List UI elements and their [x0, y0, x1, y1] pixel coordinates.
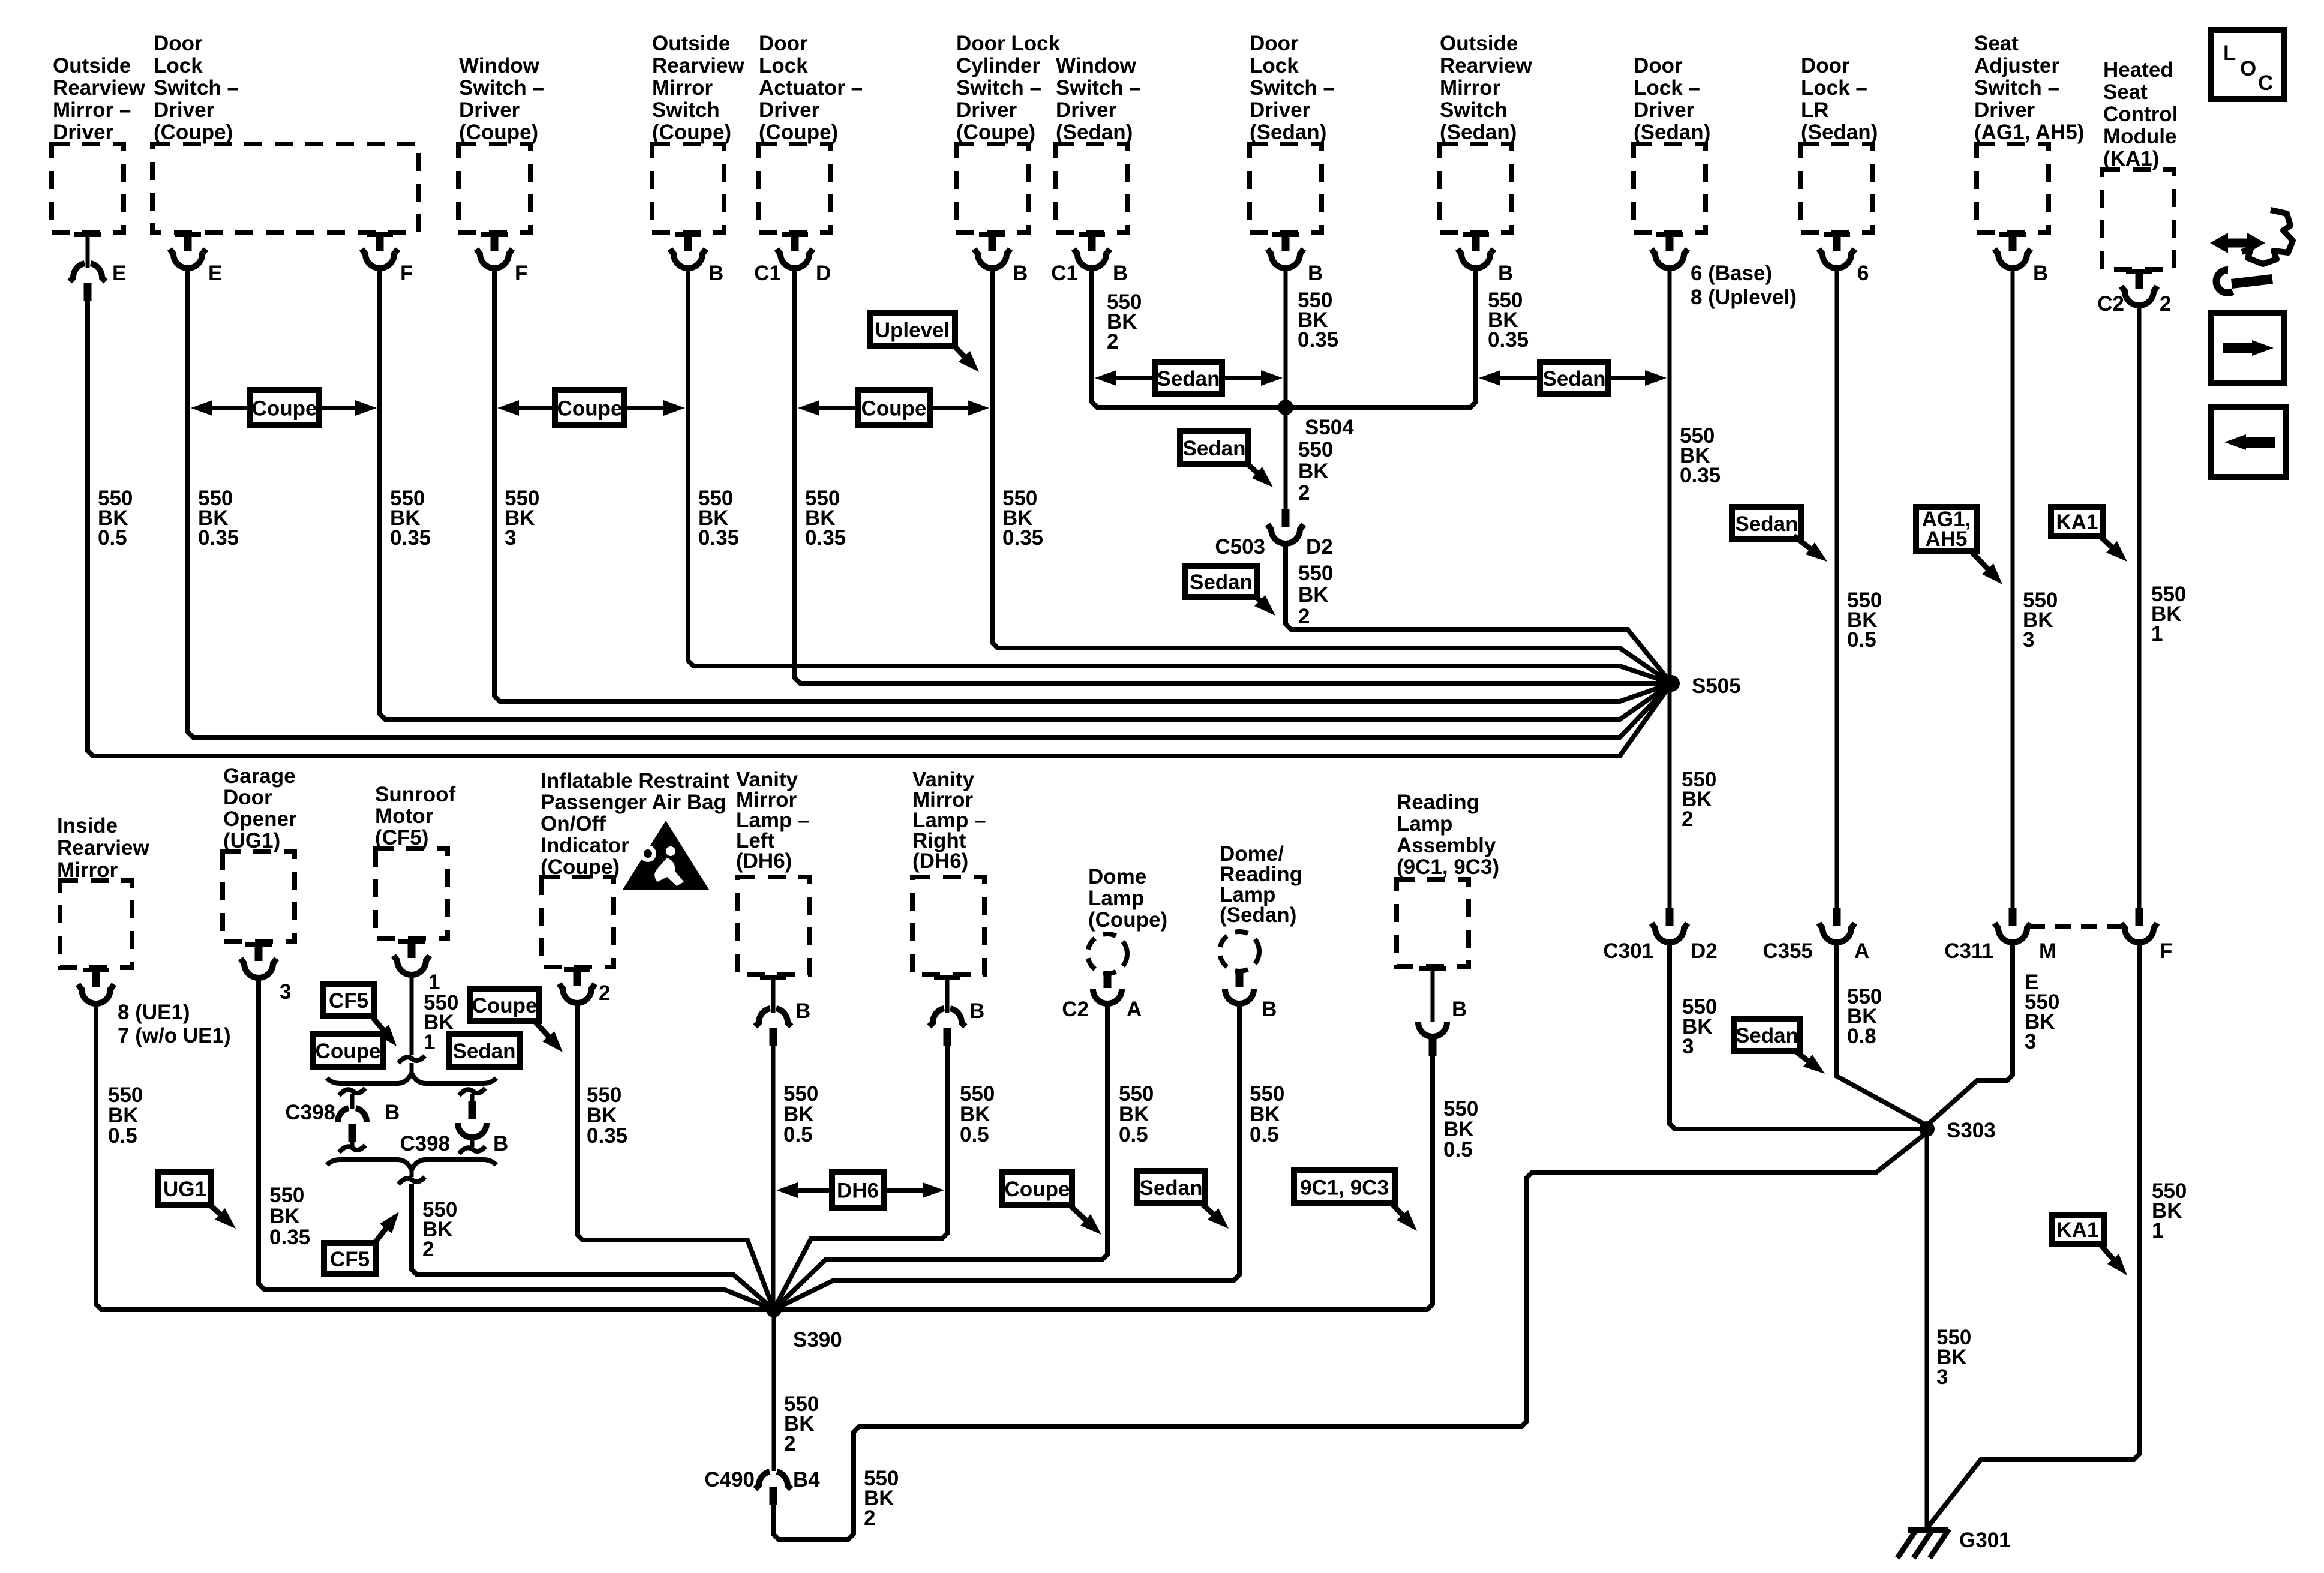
svg-text:(UG1): (UG1) [223, 829, 280, 852]
svg-text:(9C1, 9C3): (9C1, 9C3) [1397, 855, 1499, 879]
wire S303 down to ground G301 [1925, 1129, 1929, 1530]
svg-text:Door: Door [1634, 54, 1683, 77]
wire break squiggle bottom [410, 1170, 414, 1177]
svg-text:A: A [1127, 998, 1142, 1021]
svg-text:Coupe: Coupe [252, 397, 317, 421]
svg-text:F: F [515, 262, 527, 285]
svg-text:C2: C2 [2097, 292, 2124, 316]
svg-text:1: 1 [424, 1031, 435, 1054]
svg-text:F: F [400, 262, 413, 285]
svg-text:C: C [2258, 71, 2273, 95]
svg-text:Seat: Seat [1974, 32, 2019, 55]
svg-text:Outside: Outside [652, 32, 730, 55]
svg-text:3: 3 [2023, 628, 2034, 652]
svg-text:Sedan: Sedan [1139, 1176, 1202, 1200]
callout Sedan with arrows [1497, 376, 1540, 380]
svg-text:BK: BK [1298, 583, 1329, 607]
svg-text:0.35: 0.35 [269, 1226, 310, 1249]
svg-text:0.35: 0.35 [390, 526, 431, 550]
svg-text:B: B [1262, 998, 1277, 1021]
svg-text:Assembly: Assembly [1397, 834, 1496, 857]
svg-text:550: 550 [269, 1184, 304, 1207]
svg-text:B: B [1498, 262, 1513, 285]
svg-text:3: 3 [2025, 1030, 2036, 1053]
callout Sedan with arrow upper [1732, 507, 1801, 539]
svg-text:0.5: 0.5 [1250, 1123, 1279, 1146]
svg-text:Door: Door [1801, 54, 1850, 77]
connector F on C311 [2136, 908, 2143, 926]
svg-text:DH6: DH6 [837, 1179, 879, 1203]
svg-text:C2: C2 [1062, 998, 1089, 1021]
svg-text:Heated: Heated [2103, 58, 2173, 82]
svg-text:CF5: CF5 [329, 989, 368, 1013]
connector pin F [491, 232, 499, 251]
component Window Switch - Driver (Coupe) box [458, 144, 530, 232]
callout Uplevel with arrow [870, 313, 955, 346]
svg-text:Indicator: Indicator [541, 834, 629, 857]
svg-text:S505: S505 [1692, 674, 1741, 698]
wire Door Lock Switch pin E to S505 [188, 266, 1671, 737]
svg-text:(Coupe): (Coupe) [652, 121, 731, 144]
svg-text:Sunroof: Sunroof [375, 783, 455, 806]
svg-text:Lock –: Lock – [1801, 76, 1867, 100]
svg-text:Door: Door [223, 786, 272, 809]
connector C301 pin D2 [1666, 908, 1674, 926]
svg-text:A: A [1854, 939, 1869, 963]
svg-text:B: B [1113, 262, 1128, 285]
svg-text:(Coupe): (Coupe) [154, 121, 233, 144]
svg-text:0.35: 0.35 [1680, 464, 1721, 487]
connector pin B [1236, 971, 1244, 987]
svg-text:(Sedan): (Sedan) [1801, 121, 1878, 144]
svg-text:Sedan: Sedan [1735, 512, 1798, 536]
svg-text:C503: C503 [1215, 535, 1265, 559]
svg-text:Inflatable Restraint: Inflatable Restraint [541, 769, 729, 792]
svg-text:(Coupe): (Coupe) [759, 121, 838, 144]
connector pin B [1472, 232, 1480, 251]
svg-text:Rearview: Rearview [1440, 54, 1532, 77]
svg-text:B: B [708, 262, 723, 285]
splice S390 [766, 1302, 782, 1317]
svg-text:Mirror –: Mirror – [53, 98, 131, 122]
svg-text:KA1: KA1 [2056, 1218, 2098, 1242]
svg-text:D2: D2 [1306, 535, 1333, 559]
svg-text:S504: S504 [1305, 416, 1354, 439]
svg-text:3: 3 [280, 980, 291, 1004]
svg-text:Switch –: Switch – [1056, 76, 1141, 100]
svg-text:3: 3 [505, 526, 516, 550]
svg-text:(Sedan): (Sedan) [1634, 121, 1710, 144]
component Door Lock - LR (Sedan) box [1801, 144, 1873, 232]
svg-text:Coupe: Coupe [861, 397, 927, 421]
svg-text:Coupe: Coupe [472, 994, 538, 1017]
connector C398 right (Sedan) with squiggles [459, 1088, 485, 1095]
component Heated Seat Control Module box [2102, 169, 2174, 269]
svg-text:Opener: Opener [223, 807, 297, 831]
harness-repair icon (double arrow, outline, wrench) [2227, 239, 2248, 248]
svg-text:0.5: 0.5 [98, 526, 127, 550]
svg-text:Driver: Driver [53, 121, 114, 144]
connector C490 pin B4 [755, 1472, 770, 1489]
ground G301 symbol [1908, 1527, 1948, 1533]
connector pin B [684, 232, 692, 251]
wire Dome/Reading Lamp Sedan to S390 [774, 1001, 1239, 1310]
component Door Lock Switch - Driver (Sedan) box [1250, 144, 1322, 232]
connector pin 8/7 [92, 968, 100, 987]
svg-text:2: 2 [784, 1432, 795, 1455]
wire Outside Rearview Mirror Switch Coupe to S505 [688, 266, 1671, 683]
svg-text:Coupe: Coupe [1005, 1178, 1070, 1201]
wire C503 to S505 top level [1286, 541, 1671, 683]
svg-text:BK: BK [269, 1205, 300, 1228]
svg-text:Sedan: Sedan [1736, 1024, 1798, 1047]
svg-text:C398: C398 [285, 1101, 335, 1124]
splice S505 [1663, 675, 1680, 692]
svg-text:M: M [2039, 939, 2056, 963]
wire Door Lock Driver Sedan through S505 down to C301 [1668, 266, 1672, 908]
component Reading Lamp Assembly box [1397, 879, 1469, 966]
svg-text:O: O [2240, 57, 2256, 80]
svg-text:2: 2 [2160, 292, 2171, 316]
svg-text:Coupe: Coupe [316, 1040, 381, 1063]
callout KA1 with arrow lower [2052, 1215, 2104, 1244]
callout Coupe with arrow [470, 989, 539, 1021]
svg-text:Driver: Driver [759, 98, 820, 122]
callout CF5 with arrow lower [324, 1243, 376, 1274]
component Door Lock Actuator - Driver (Coupe) box [759, 144, 831, 232]
wire Outside Rearview Mirror Switch Sedan to S504 [1293, 266, 1476, 407]
connector pin 1 [408, 939, 416, 958]
svg-text:3: 3 [1936, 1365, 1948, 1389]
wire Door Lock Switch Sedan to S504 [1284, 266, 1288, 407]
svg-text:CF5: CF5 [330, 1248, 370, 1271]
svg-text:2: 2 [864, 1506, 875, 1530]
svg-text:Outside: Outside [1440, 32, 1518, 55]
svg-text:Sedan: Sedan [1157, 367, 1220, 391]
wire Sunroof Motor lower segment to S390 [412, 1184, 774, 1310]
svg-text:Driver: Driver [1974, 98, 2035, 122]
svg-text:2: 2 [1298, 481, 1310, 505]
svg-text:AH5: AH5 [1925, 527, 1967, 551]
svg-text:0.5: 0.5 [783, 1123, 813, 1146]
callout KA1 with arrow upper [2051, 507, 2103, 536]
svg-text:B: B [2033, 262, 2048, 285]
svg-text:2: 2 [1298, 605, 1310, 628]
svg-text:Mirror: Mirror [1440, 76, 1501, 100]
svg-text:0.35: 0.35 [1488, 328, 1529, 352]
svg-text:Passenger Air Bag: Passenger Air Bag [541, 791, 726, 814]
callout Coupe with arrows between wires E and F [209, 406, 250, 410]
wire Door Lock Cylinder Switch to S505 [992, 266, 1671, 683]
wire Sunroof Motor upper segment [410, 972, 414, 1055]
svg-text:S303: S303 [1947, 1119, 1996, 1142]
component Dome/Reading Lamp (Sedan) dashed circle [1220, 932, 1259, 971]
svg-text:(DH6): (DH6) [912, 849, 968, 873]
callout Sedan with arrow to S504-C503 wire [1180, 431, 1248, 464]
svg-text:0.8: 0.8 [1847, 1025, 1876, 1048]
svg-text:Lock: Lock [1250, 54, 1299, 77]
callout 9C1 9C3 with arrow [1294, 1170, 1395, 1203]
svg-text:LR: LR [1801, 98, 1829, 122]
svg-text:2: 2 [599, 981, 610, 1005]
left arrow box icon [2211, 407, 2286, 477]
svg-text:Driver: Driver [459, 98, 520, 122]
connector pin 6/8 [1666, 232, 1674, 251]
svg-text:Switch: Switch [1440, 98, 1508, 122]
svg-text:8 (UE1): 8 (UE1) [118, 1001, 190, 1024]
component Dome Lamp (Coupe) dashed circle [1088, 934, 1127, 974]
component Seat Adjuster Switch box [1977, 144, 2049, 232]
svg-text:C1: C1 [1051, 262, 1078, 285]
svg-text:UG1: UG1 [163, 1178, 206, 1201]
svg-text:BK: BK [1298, 460, 1329, 483]
svg-text:C301: C301 [1603, 939, 1653, 963]
svg-text:C1: C1 [754, 262, 781, 285]
wire Window Switch Sedan to S504 [1092, 266, 1278, 407]
connector C311 pin M [2009, 908, 2017, 926]
svg-text:1: 1 [2151, 622, 2163, 646]
svg-text:Garage: Garage [223, 764, 296, 788]
upper brace [327, 1073, 496, 1083]
LOC reference box icon [2211, 30, 2284, 99]
connector pin 2 [574, 967, 581, 986]
svg-text:0.35: 0.35 [805, 526, 846, 550]
callout Sedan (C398 split) [449, 1034, 520, 1067]
svg-text:8 (Uplevel): 8 (Uplevel) [1691, 286, 1797, 309]
svg-text:B: B [969, 999, 984, 1023]
callout Coupe (C398 split) [313, 1034, 383, 1067]
component Inside Rearview Mirror box [60, 881, 132, 968]
wire Reading Lamp Assembly to S390 [774, 1056, 1433, 1310]
svg-text:(AG1, AH5): (AG1, AH5) [1974, 121, 2084, 144]
svg-text:0.5: 0.5 [1443, 1138, 1473, 1161]
svg-text:On/Off: On/Off [541, 812, 606, 836]
svg-text:B: B [385, 1101, 400, 1124]
component Window Switch - Driver (Sedan) box [1056, 144, 1128, 232]
component Outside Rearview Mirror Switch (Coupe) box [652, 144, 724, 232]
svg-text:Driver: Driver [1634, 98, 1695, 122]
airbag warning triangle icon [623, 821, 709, 890]
callout Sedan with arrow near C355 [1734, 1019, 1800, 1051]
svg-text:Driver: Driver [1056, 98, 1117, 122]
svg-text:0.35: 0.35 [1298, 328, 1338, 352]
wire C301 to S303 [1670, 940, 1927, 1129]
callout UG1 with arrow [158, 1172, 211, 1205]
svg-text:Uplevel: Uplevel [875, 319, 950, 342]
svg-text:550: 550 [1298, 438, 1333, 461]
svg-text:(Coupe): (Coupe) [1088, 908, 1167, 932]
component Door Lock Cylinder Switch box [956, 144, 1028, 232]
connector pin B [771, 977, 776, 1013]
svg-text:Window: Window [1056, 54, 1137, 77]
svg-text:Cylinder: Cylinder [956, 54, 1040, 77]
svg-text:Mirror: Mirror [652, 76, 713, 100]
svg-text:Switch –: Switch – [459, 76, 544, 100]
wire Seat Adjuster Switch down to C311 [2011, 266, 2015, 908]
svg-text:(Sedan): (Sedan) [1250, 121, 1326, 144]
svg-text:2: 2 [1107, 330, 1118, 353]
svg-text:Rearview: Rearview [53, 76, 145, 100]
svg-text:C398: C398 [400, 1132, 450, 1155]
lower brace [327, 1160, 496, 1170]
svg-text:C311: C311 [1944, 939, 1993, 963]
svg-text:Actuator –: Actuator – [759, 76, 863, 100]
wire C355 to S303 [1837, 940, 1927, 1125]
connector C398 left (Coupe) with squiggles [339, 1088, 365, 1095]
svg-text:Sedan: Sedan [452, 1040, 515, 1063]
connector C1 pin B [1088, 232, 1096, 251]
svg-text:Control: Control [2103, 103, 2178, 126]
right arrow box icon [2211, 313, 2284, 383]
svg-text:B: B [1308, 262, 1323, 285]
callout Sedan with arrow below C503 [1185, 566, 1257, 597]
callout Coupe with arrows [515, 406, 555, 410]
component Door Lock - Driver (Sedan) box [1634, 144, 1706, 232]
component Outside Rearview Mirror - Driver box [52, 144, 124, 232]
wire pin F down to ground junction [1926, 940, 2139, 1529]
connector pin F [376, 232, 384, 251]
wire Heated Seat Control Module down to C311 pin F [2137, 303, 2142, 908]
svg-text:(Sedan): (Sedan) [1440, 121, 1517, 144]
connector pin 6 [1833, 232, 1841, 251]
wire Window Switch Coupe to S505 [494, 266, 1671, 701]
svg-text:0.5: 0.5 [108, 1124, 137, 1148]
callout Coupe with arrow [1002, 1172, 1072, 1205]
svg-text:Switch –: Switch – [1974, 76, 2059, 100]
wire Door Lock Switch pin F to S505 [380, 266, 1671, 719]
svg-text:Driver: Driver [154, 98, 215, 122]
svg-text:(Coupe): (Coupe) [956, 121, 1035, 144]
svg-text:Switch: Switch [652, 98, 720, 122]
svg-text:Rearview: Rearview [652, 54, 744, 77]
callout DH6 with arrows [794, 1188, 832, 1193]
callout AG1 AH5 with arrow [1916, 507, 1977, 551]
svg-text:Door: Door [154, 32, 203, 55]
svg-text:E: E [112, 262, 126, 285]
svg-text:Inside: Inside [57, 814, 118, 837]
svg-text:(Sedan): (Sedan) [1220, 903, 1296, 927]
svg-text:1: 1 [2152, 1219, 2163, 1242]
svg-text:B4: B4 [793, 1468, 820, 1491]
svg-text:0.35: 0.35 [698, 526, 739, 550]
svg-text:(Sedan): (Sedan) [1056, 121, 1133, 144]
svg-text:Lock: Lock [759, 54, 808, 77]
component Outside Rearview Mirror Switch (Sedan) box [1440, 144, 1512, 232]
svg-text:Coupe: Coupe [557, 397, 623, 421]
callout Sedan with arrow [1137, 1171, 1205, 1203]
connector pin E [184, 232, 192, 251]
wire break squiggle top [398, 1056, 425, 1063]
svg-text:(DH6): (DH6) [736, 849, 792, 873]
svg-text:Dome: Dome [1088, 865, 1146, 888]
svg-text:Sedan: Sedan [1542, 367, 1605, 391]
svg-text:Seat: Seat [2103, 80, 2148, 104]
svg-text:B: B [493, 1132, 508, 1155]
svg-text:550: 550 [1298, 562, 1333, 585]
wire S504 down to C503 [1284, 407, 1288, 509]
svg-text:0.35: 0.35 [198, 526, 239, 550]
svg-text:Door: Door [1250, 32, 1299, 55]
svg-text:Lock: Lock [154, 54, 203, 77]
wire C490 to S303 via long path [773, 1133, 1927, 1539]
svg-text:Driver: Driver [956, 98, 1017, 122]
svg-text:0.5: 0.5 [1119, 1123, 1148, 1146]
svg-text:Door Lock: Door Lock [956, 32, 1061, 55]
wire Garage Door Opener to S390 [259, 975, 774, 1310]
svg-text:Lamp: Lamp [1088, 887, 1144, 910]
dashed link C311 to pin F [2029, 924, 2122, 929]
connector C503 pin D2 [1282, 509, 1290, 527]
svg-text:E: E [208, 262, 222, 285]
wire Inflatable Restraint Indicator to S390 [577, 1001, 774, 1310]
component Inflatable Restraint Indicator box [542, 877, 614, 967]
svg-text:Rearview: Rearview [57, 836, 149, 860]
wire Dome Lamp Coupe to S390 [774, 1001, 1107, 1310]
svg-text:Lamp: Lamp [1397, 812, 1452, 836]
svg-text:Switch –: Switch – [1250, 76, 1335, 100]
svg-text:7 (w/o UE1): 7 (w/o UE1) [118, 1024, 231, 1047]
callout Sedan with arrows [1113, 376, 1155, 380]
svg-text:2: 2 [422, 1238, 434, 1261]
svg-text:6: 6 [1857, 262, 1869, 285]
connector C2 pin 2 [2136, 269, 2143, 289]
svg-text:D2: D2 [1691, 939, 1718, 963]
svg-text:L: L [2223, 41, 2236, 65]
svg-text:Motor: Motor [375, 804, 434, 828]
connector pin 3 [255, 942, 263, 961]
svg-text:9C1, 9C3: 9C1, 9C3 [1300, 1176, 1389, 1200]
svg-text:S390: S390 [793, 1328, 842, 1352]
svg-text:Sedan: Sedan [1190, 571, 1253, 594]
splice S504 [1278, 400, 1293, 415]
callout Coupe with arrows [816, 406, 858, 410]
svg-text:Adjuster: Adjuster [1974, 54, 2059, 77]
svg-text:Module: Module [2103, 125, 2176, 148]
component Sunroof Motor box [376, 849, 448, 939]
connector C2 pin A [1104, 974, 1112, 988]
connector pin B [1282, 232, 1290, 251]
wire S390 down to C490 [772, 1310, 776, 1471]
wire Vanity Mirror Right to S390 [774, 1046, 947, 1310]
connector pin B [945, 977, 950, 1013]
svg-text:Switch –: Switch – [956, 76, 1041, 100]
svg-text:KA1: KA1 [2056, 511, 2098, 534]
wire C311 to S303 [1927, 940, 2013, 1125]
connector pin E (dome) [86, 232, 90, 268]
connector pin B [1431, 966, 1435, 1022]
svg-text:0.5: 0.5 [960, 1123, 989, 1146]
svg-text:0.35: 0.35 [587, 1124, 627, 1148]
wire Inside Rearview Mirror to S390 [96, 1001, 774, 1310]
wire Vanity Mirror Left to S390 [771, 1046, 776, 1310]
svg-text:Reading: Reading [1397, 791, 1479, 814]
svg-text:Outside: Outside [53, 54, 131, 77]
callout CF5 with arrow upper [323, 984, 374, 1016]
connector pin B [989, 232, 996, 251]
component Vanity Mirror Lamp Right box [912, 877, 984, 975]
svg-text:Switch –: Switch – [154, 76, 239, 100]
svg-text:(Coupe): (Coupe) [459, 121, 538, 144]
svg-text:B: B [795, 999, 810, 1023]
svg-text:0.5: 0.5 [1847, 628, 1876, 652]
wire Door Lock Actuator to S505 [795, 266, 1671, 683]
component Vanity Mirror Lamp Left box [737, 877, 809, 975]
wire Door Lock LR down to C355 [1835, 266, 1839, 908]
connector pin B [2009, 232, 2017, 251]
svg-text:3: 3 [1682, 1035, 1694, 1058]
component Door Lock Switch - Driver (Coupe) box [152, 144, 419, 232]
svg-text:G301: G301 [1959, 1529, 2011, 1552]
